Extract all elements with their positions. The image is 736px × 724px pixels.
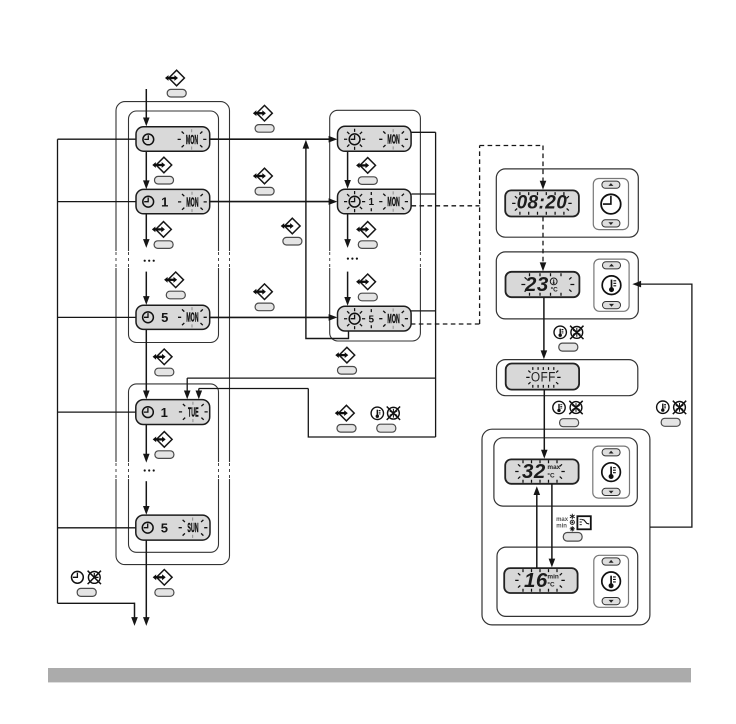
mini thermometer in LCD2 (550, 278, 557, 285)
knob button L1-L2 (152, 157, 173, 184)
knob button on loop-back wire (281, 218, 302, 245)
svg-text:MON: MON (186, 196, 198, 210)
knob button top entry (165, 70, 186, 97)
heating curve square icon (577, 516, 590, 529)
wire collector to TUE (upper) (187, 377, 435, 379)
push button below panel2 (559, 343, 578, 351)
blinking clock icon M2 (349, 196, 360, 207)
footer gray bar (48, 668, 691, 682)
dashed M3 to panel rail (411, 323, 480, 325)
svg-text:max: max (556, 517, 569, 523)
clock icon L3 (143, 312, 154, 323)
knob button on wire L3-M3 (253, 284, 274, 311)
LCD 32 max (505, 459, 578, 483)
push button bottom-left pair (77, 588, 96, 596)
svg-text:SUN: SUN (187, 522, 198, 536)
display M2 (sun 1 MON) (338, 189, 412, 214)
wire left-rail to box L2 (58, 201, 136, 203)
arrow panel2 to OFF (543, 297, 545, 351)
display TUE (clock 1 TUE) (136, 400, 210, 425)
arrow M1 to M2 (347, 151, 349, 181)
ellipsis row2 left (144, 469, 146, 471)
wire L2 to M2 (210, 201, 330, 203)
push button max/min (563, 533, 582, 542)
button group panel4 (up/down + thermometer) (593, 446, 630, 498)
thermostat button icon below OFF (553, 401, 565, 413)
stub M3 right (411, 310, 436, 312)
enclosure box edges (308, 389, 435, 438)
clock icon SUN (142, 522, 153, 533)
arrow L3 to TUE (145, 330, 147, 392)
knob button on wire L2-M2 (253, 168, 274, 195)
push button (enclosure pair) (377, 424, 396, 432)
inner container MON section (129, 111, 219, 343)
svg-text:5: 5 (161, 310, 168, 325)
push button below OFF (560, 419, 579, 427)
button group panel1 (up/down + clock) (593, 179, 628, 230)
outer container left (weekday program loop) (116, 102, 230, 565)
svg-text:MON: MON (186, 311, 198, 325)
crossed clock icon bottom-left (88, 571, 101, 584)
arrow ellipsis to L3 (145, 272, 147, 298)
dashed rail top (480, 145, 543, 147)
blinking clock icon M1 (349, 134, 360, 145)
panel 3 (OFF) (497, 360, 638, 396)
cancel icon below OFF (569, 401, 582, 414)
wire L1 to M1 (210, 138, 330, 140)
LCD 23C (506, 272, 580, 297)
knob button L2-ellipsis (152, 222, 173, 249)
panel 4 (max temperature 32C) (494, 438, 637, 506)
dashed panel1 to panel2 (542, 217, 544, 264)
svg-text:23: 23 (524, 273, 549, 296)
LCD 16 min (504, 568, 577, 593)
display L3 (clock 5 MON) (136, 305, 210, 329)
wire left-rail to box TUE (58, 411, 136, 413)
arrow M2 to ellipsis (347, 214, 349, 240)
push button right pair (661, 418, 680, 426)
arrow ellipsis2 to SUN (145, 481, 147, 507)
dashed drop into panel1 (542, 146, 544, 183)
wire L3 to M3 (210, 316, 330, 318)
thermostat button icon right pair (657, 401, 669, 413)
svg-text:min: min (547, 573, 558, 580)
inner container TUE-SUN section (129, 384, 219, 552)
cancel icon below panel2 (570, 326, 583, 339)
wire left rail vertical (57, 139, 59, 603)
middle container (sun program section) (330, 110, 421, 341)
wire maxmin feedback to panel2 (641, 284, 692, 527)
display SUN (clock 5 SUN) (136, 515, 210, 540)
dashed M2 to panel rail (412, 205, 480, 207)
svg-text:1: 1 (161, 194, 168, 209)
wire left rail bottom (58, 602, 135, 604)
svg-text:max: max (547, 464, 560, 471)
stub M2 right (412, 193, 436, 195)
svg-text:MON: MON (387, 133, 399, 147)
knob button TUE-ellipsis2 (153, 432, 174, 459)
wire enclosure to TUE (lower) (199, 388, 308, 390)
panel 5 (min temperature 16C) (497, 547, 638, 616)
svg-text:08:20: 08:20 (517, 193, 568, 214)
wire left-rail to box SUN (58, 527, 136, 529)
knob button ellipsis-M3 (356, 274, 377, 301)
container max/min panels (482, 429, 650, 625)
OFF blink rays (526, 367, 560, 388)
svg-text:OFF: OFF (531, 369, 556, 385)
svg-text:MON: MON (186, 133, 198, 147)
stub M1 right (411, 131, 436, 133)
LCD OFF (506, 364, 579, 390)
panel 2 (room temperature 23C) (496, 252, 638, 319)
arrow minLCD to maxLCD (536, 494, 538, 568)
knob button in enclosure (335, 405, 356, 432)
arrow ellipsis to M3 (347, 272, 349, 299)
LCD 08:20 (505, 190, 579, 216)
clock icon L1 (143, 134, 154, 145)
button group panel2 (up/down + thermometer) (594, 259, 629, 311)
display M3 (sun 5 MON) (338, 306, 412, 331)
ellipsis row middle (347, 258, 349, 260)
tiny mode glyphs (570, 514, 575, 532)
cancel icon right pair (673, 401, 686, 414)
clock icon L2 (143, 196, 154, 207)
wire left-rail to box L3 (58, 316, 136, 318)
knob button M2-ellipsis (356, 222, 377, 249)
panel 1 (time setting 08:20) (496, 169, 638, 237)
svg-text:min: min (556, 524, 567, 530)
svg-text:1: 1 (369, 197, 375, 208)
svg-text:MON: MON (387, 313, 399, 327)
knob button M1-M2 (356, 158, 377, 185)
svg-text:°C: °C (551, 285, 559, 293)
arrow L1 to L2 (145, 152, 147, 182)
knob button below middle container (335, 347, 356, 374)
display M1 (sun MON) (338, 126, 412, 151)
arrow OFF to max panel (543, 390, 545, 451)
knob button between sections (153, 349, 174, 376)
wire left-rail to box L1 (58, 138, 137, 140)
knob button on wire L1-M1 (253, 105, 274, 132)
svg-text:°C: °C (547, 471, 555, 479)
clock icon bottom-left (72, 571, 84, 583)
svg-text:1: 1 (161, 405, 168, 420)
thermostat button icon (enclosure) (371, 407, 383, 419)
svg-text:32: 32 (522, 460, 546, 483)
arrow maxLCD to minLCD (551, 484, 553, 560)
svg-text:5: 5 (369, 314, 375, 325)
display L1 (clock MON) (136, 127, 210, 152)
arrow TUE to ellipsis2 (145, 425, 147, 455)
svg-text:16: 16 (524, 569, 548, 592)
thermostat button icon below panel2 (554, 326, 566, 338)
svg-text:°C: °C (547, 580, 555, 588)
svg-text:5: 5 (161, 520, 168, 535)
wire right collector vertical (435, 132, 437, 437)
svg-text:TUE: TUE (188, 406, 199, 420)
cancel icon (enclosure) (387, 407, 400, 420)
svg-text:MON: MON (387, 196, 399, 210)
wire loop-back M3 to L1-M1 (306, 148, 349, 339)
knob button bottom exit (153, 570, 174, 597)
border break band row2 (114, 462, 118, 479)
dashed rail vertical (479, 146, 481, 325)
ellipsis row1 left (144, 260, 146, 262)
arrow into box L1 (145, 89, 147, 119)
arrow L2 to ellipsis (145, 214, 147, 241)
blinking clock icon M3 (349, 313, 360, 324)
clock icon TUE (143, 407, 154, 418)
border break band row1 (114, 251, 118, 268)
knob button ellipsis-L3 (164, 272, 185, 299)
button group panel5 (up/down + thermometer) (594, 555, 629, 607)
arrow SUN exit down (145, 540, 147, 618)
display L2 (clock 1 MON) (136, 189, 210, 213)
arrow exit left rail (134, 603, 136, 619)
